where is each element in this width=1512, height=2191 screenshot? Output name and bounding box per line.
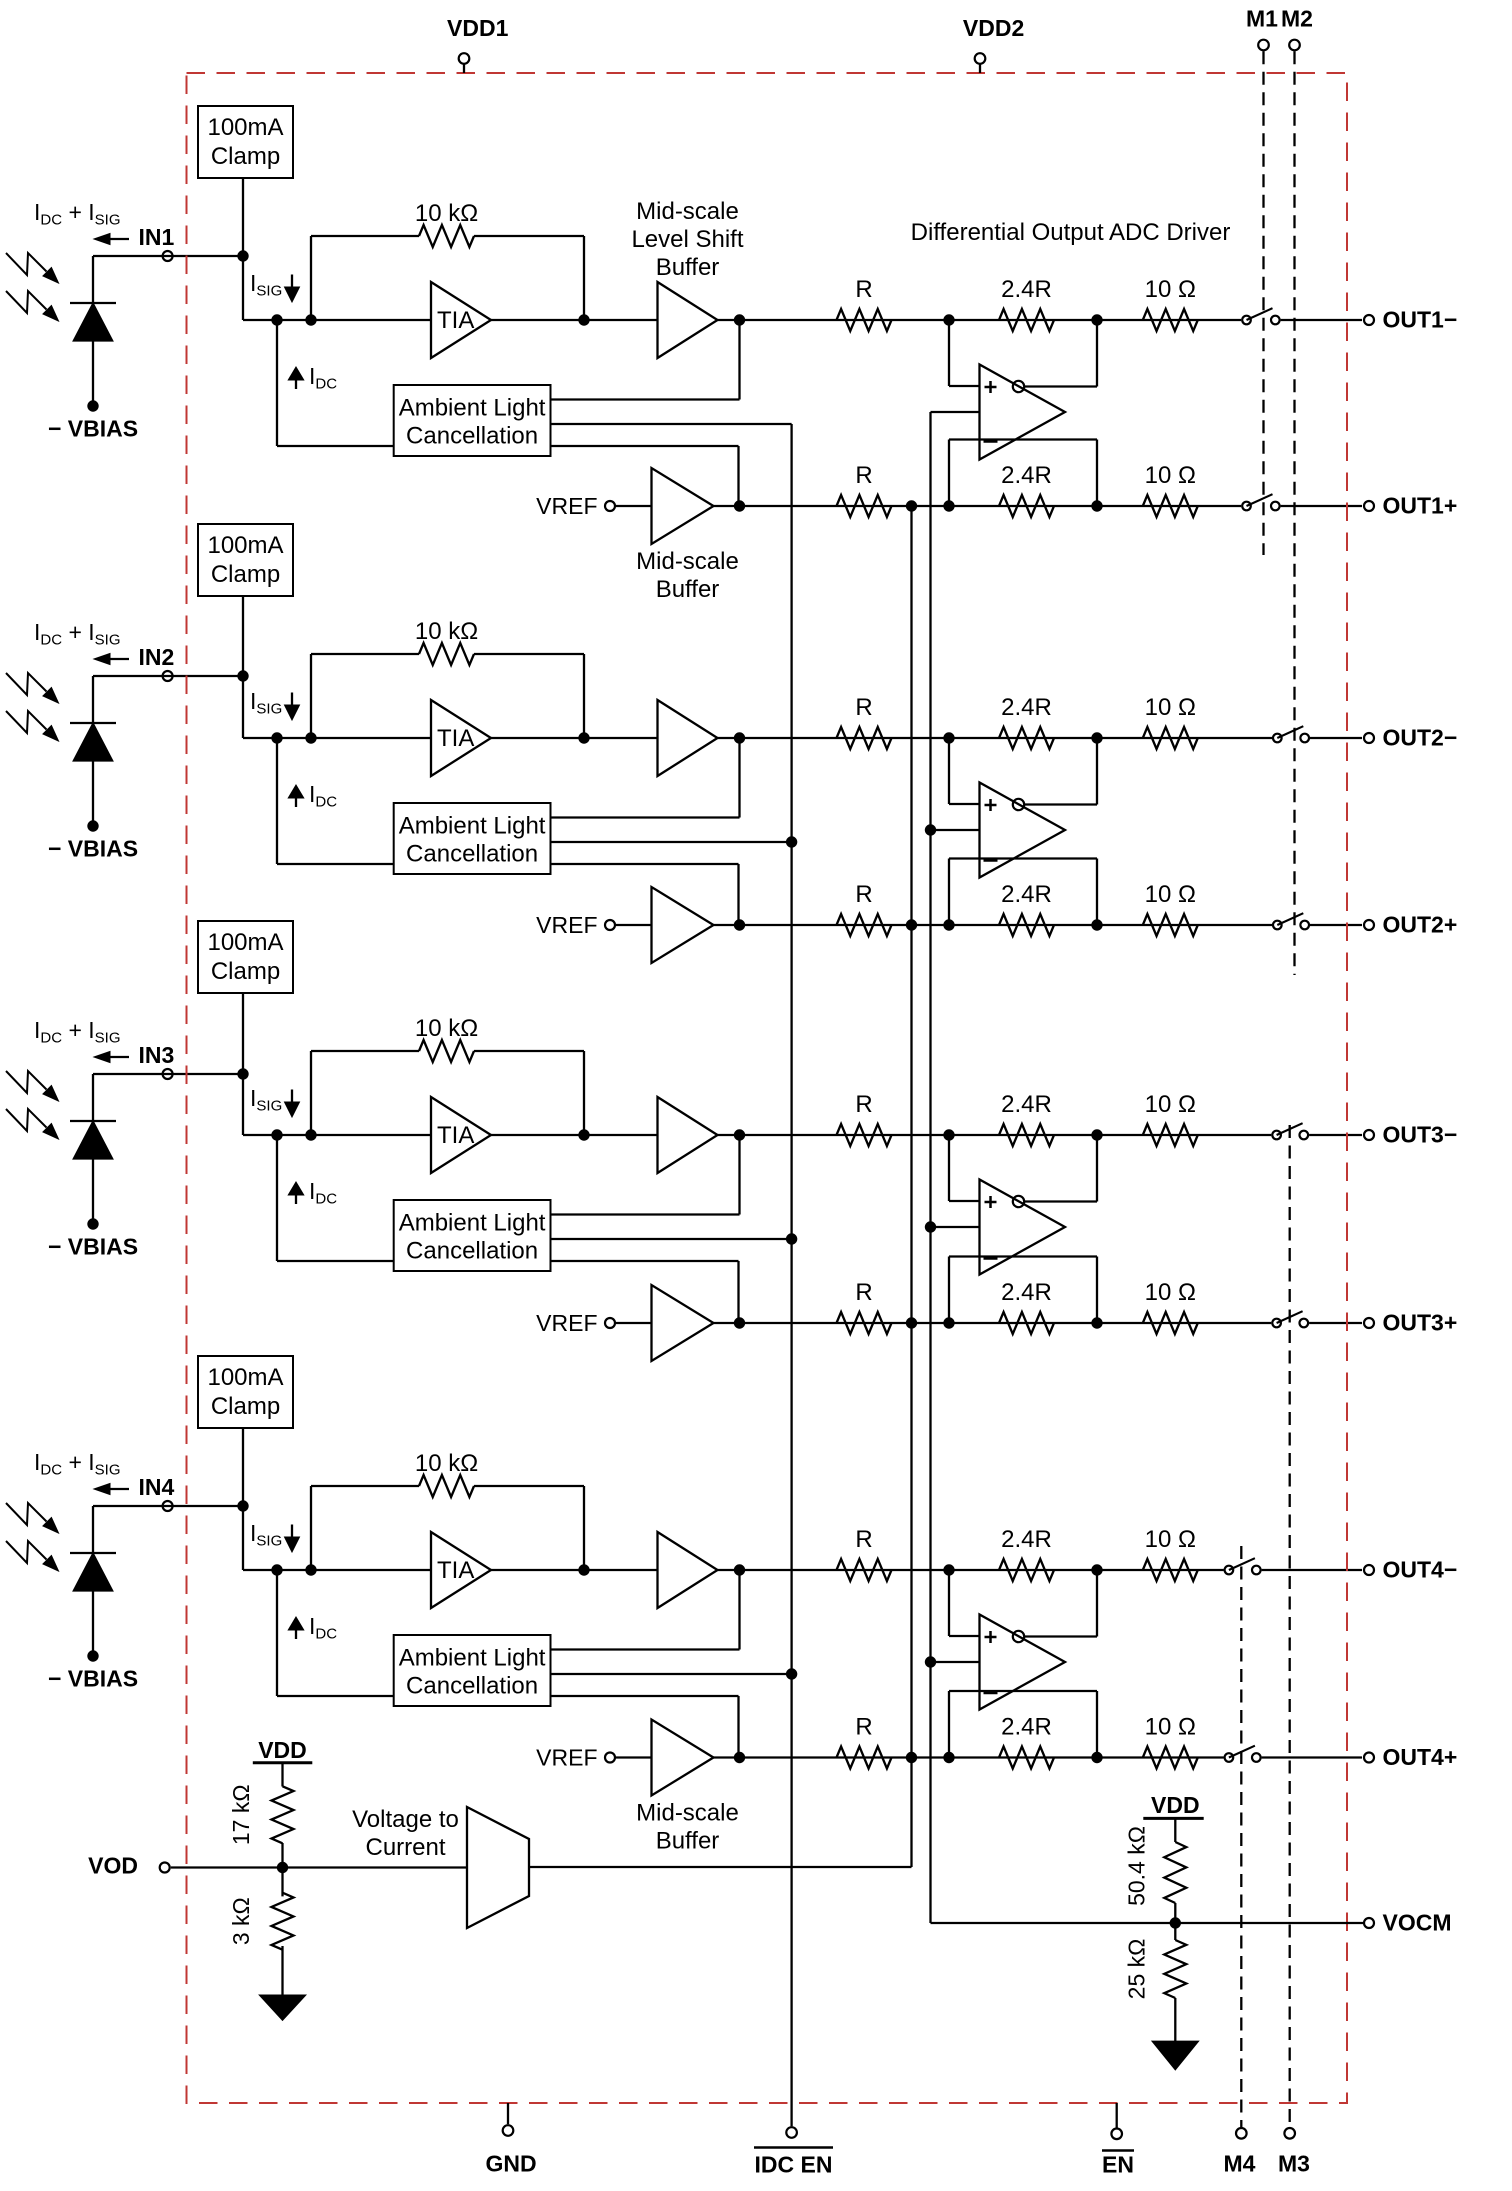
svg-text:100mA: 100mA [207,114,283,141]
svg-text:M1: M1 [1246,6,1278,32]
svg-text:M4: M4 [1224,2151,1256,2177]
svg-text:17 kΩ: 17 kΩ [228,1784,254,1845]
svg-text:10 Ω: 10 Ω [1145,276,1196,303]
svg-text:3 kΩ: 3 kΩ [228,1897,254,1945]
svg-text:OUT1+: OUT1+ [1383,493,1458,519]
svg-text:100mA: 100mA [207,1364,283,1391]
svg-text:− VBIAS: − VBIAS [48,1666,138,1692]
svg-text:− VBIAS: − VBIAS [48,1234,138,1260]
svg-text:Differential Output ADC Driver: Differential Output ADC Driver [911,219,1231,246]
svg-text:Cancellation: Cancellation [406,1238,538,1265]
svg-text:Level Shift: Level Shift [631,226,743,253]
svg-text:EN: EN [1102,2152,1134,2178]
svg-text:Mid-scale: Mid-scale [636,198,739,225]
svg-text:Buffer: Buffer [656,1828,720,1855]
svg-text:GND: GND [485,2151,536,2177]
svg-text:2.4R: 2.4R [1001,1526,1052,1553]
svg-text:VOCM: VOCM [1383,1910,1452,1936]
svg-text:10 Ω: 10 Ω [1145,1714,1196,1741]
svg-text:VREF: VREF [536,493,597,519]
svg-text:M3: M3 [1278,2151,1310,2177]
svg-text:VDD: VDD [1151,1792,1200,1818]
svg-text:10 kΩ: 10 kΩ [415,1015,478,1042]
svg-text:TIA: TIA [437,307,474,334]
svg-text:2.4R: 2.4R [1001,1714,1052,1741]
svg-text:2.4R: 2.4R [1001,462,1052,489]
svg-text:R: R [855,881,872,908]
svg-text:Mid-scale: Mid-scale [636,548,739,575]
svg-text:OUT3−: OUT3− [1383,1122,1458,1148]
svg-text:M2: M2 [1281,6,1313,32]
svg-text:TIA: TIA [437,725,474,752]
svg-text:R: R [855,1714,872,1741]
svg-text:VREF: VREF [536,1745,597,1771]
svg-text:VDD1: VDD1 [447,15,509,41]
svg-text:IN3: IN3 [139,1042,175,1068]
svg-text:R: R [855,462,872,489]
svg-text:Ambient Light: Ambient Light [399,1210,546,1237]
svg-text:OUT3+: OUT3+ [1383,1310,1458,1336]
svg-text:IN2: IN2 [139,644,175,670]
svg-text:VREF: VREF [536,912,597,938]
svg-text:Ambient Light: Ambient Light [399,813,546,840]
svg-text:VOD: VOD [88,1853,138,1879]
svg-text:Cancellation: Cancellation [406,1673,538,1700]
svg-text:10 Ω: 10 Ω [1145,462,1196,489]
svg-text:OUT1−: OUT1− [1383,307,1458,333]
svg-text:IDC EN: IDC EN [755,2152,833,2178]
svg-text:R: R [855,1279,872,1306]
svg-text:Current: Current [365,1834,445,1861]
svg-text:− VBIAS: − VBIAS [48,836,138,862]
svg-text:R: R [855,1526,872,1553]
svg-text:Clamp: Clamp [211,958,280,985]
svg-text:Mid-scale: Mid-scale [636,1800,739,1827]
svg-text:VREF: VREF [536,1310,597,1336]
svg-text:VDD2: VDD2 [963,15,1024,41]
svg-text:IN4: IN4 [139,1474,175,1500]
svg-text:Cancellation: Cancellation [406,841,538,868]
svg-text:2.4R: 2.4R [1001,881,1052,908]
svg-text:VDD: VDD [258,1737,307,1763]
svg-text:OUT2+: OUT2+ [1383,912,1458,938]
svg-text:50.4 kΩ: 50.4 kΩ [1123,1826,1149,1906]
svg-text:100mA: 100mA [207,532,283,559]
svg-text:OUT2−: OUT2− [1383,725,1458,751]
svg-text:Ambient Light: Ambient Light [399,395,546,422]
svg-text:10 Ω: 10 Ω [1145,1279,1196,1306]
svg-text:Clamp: Clamp [211,1393,280,1420]
svg-text:R: R [855,1091,872,1118]
svg-text:IN1: IN1 [139,224,175,250]
svg-text:Buffer: Buffer [656,576,720,603]
svg-text:10 kΩ: 10 kΩ [415,1450,478,1477]
svg-text:Voltage to: Voltage to [352,1806,459,1833]
svg-text:10 Ω: 10 Ω [1145,1526,1196,1553]
svg-text:2.4R: 2.4R [1001,276,1052,303]
svg-text:25 kΩ: 25 kΩ [1123,1939,1149,2000]
svg-text:10 Ω: 10 Ω [1145,1091,1196,1118]
svg-text:10 Ω: 10 Ω [1145,694,1196,721]
svg-text:OUT4−: OUT4− [1383,1557,1458,1583]
svg-text:10 Ω: 10 Ω [1145,881,1196,908]
svg-text:Clamp: Clamp [211,143,280,170]
svg-text:2.4R: 2.4R [1001,1091,1052,1118]
svg-text:Cancellation: Cancellation [406,423,538,450]
svg-text:10 kΩ: 10 kΩ [415,200,478,227]
svg-text:100mA: 100mA [207,929,283,956]
svg-text:− VBIAS: − VBIAS [48,416,138,442]
svg-text:Buffer: Buffer [656,254,720,281]
svg-text:TIA: TIA [437,1122,474,1149]
svg-text:10 kΩ: 10 kΩ [415,618,478,645]
svg-text:Clamp: Clamp [211,561,280,588]
svg-text:OUT4+: OUT4+ [1383,1744,1458,1770]
svg-text:2.4R: 2.4R [1001,1279,1052,1306]
svg-text:Ambient Light: Ambient Light [399,1645,546,1672]
svg-text:R: R [855,694,872,721]
svg-text:TIA: TIA [437,1557,474,1584]
svg-text:2.4R: 2.4R [1001,694,1052,721]
svg-text:R: R [855,276,872,303]
